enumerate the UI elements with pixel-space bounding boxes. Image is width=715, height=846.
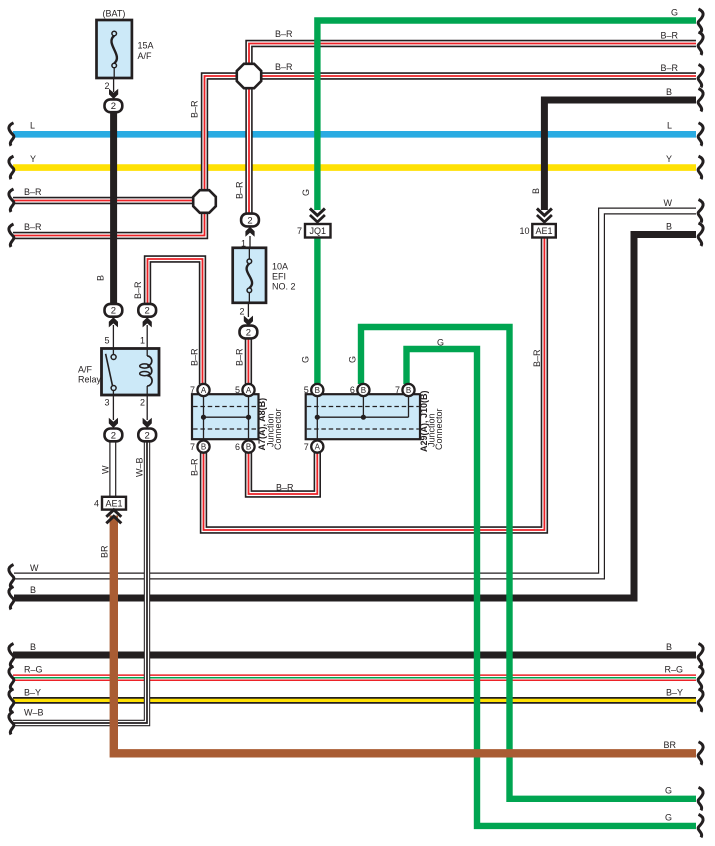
svg-text:5: 5 [104, 336, 109, 346]
svg-text:G: G [348, 356, 358, 363]
svg-text:B: B [361, 386, 366, 395]
svg-text:B–R: B–R [190, 100, 200, 118]
svg-text:AE1: AE1 [536, 226, 553, 236]
svg-text:7: 7 [190, 442, 195, 452]
svg-text:B: B [666, 642, 672, 652]
svg-text:1: 1 [140, 336, 145, 346]
svg-text:10: 10 [519, 226, 529, 236]
svg-text:B: B [406, 386, 411, 395]
svg-text:2: 2 [111, 306, 116, 317]
svg-text:B–R: B–R [275, 62, 293, 72]
svg-text:G: G [301, 356, 311, 363]
svg-text:W–B: W–B [135, 457, 145, 477]
svg-text:JQ1: JQ1 [309, 226, 326, 236]
svg-text:B–R: B–R [275, 29, 293, 39]
svg-text:A: A [201, 386, 207, 395]
svg-text:Y: Y [30, 154, 36, 164]
svg-text:2: 2 [246, 327, 251, 338]
svg-text:Connector: Connector [434, 408, 444, 450]
svg-text:15A: 15A [138, 41, 154, 51]
svg-text:B: B [315, 386, 320, 395]
svg-text:B: B [531, 188, 541, 194]
svg-text:G: G [301, 189, 311, 196]
svg-text:B: B [30, 585, 36, 595]
svg-text:A/F: A/F [78, 365, 93, 375]
svg-text:Connector: Connector [273, 408, 283, 450]
svg-text:B–R: B–R [190, 458, 200, 476]
svg-text:B: B [666, 222, 672, 232]
svg-text:2: 2 [247, 215, 252, 226]
svg-text:R–G: R–G [664, 665, 683, 675]
svg-text:BR: BR [663, 740, 676, 750]
svg-text:B–R: B–R [532, 349, 542, 367]
svg-text:2: 2 [145, 306, 150, 317]
svg-text:7: 7 [190, 385, 195, 395]
svg-text:B: B [201, 443, 206, 452]
svg-text:B–Y: B–Y [666, 687, 683, 697]
svg-text:1: 1 [241, 239, 246, 249]
svg-text:G: G [665, 786, 672, 796]
svg-text:B: B [96, 275, 106, 281]
svg-text:W: W [30, 563, 39, 573]
svg-text:G: G [665, 813, 672, 823]
svg-text:L: L [30, 121, 35, 131]
svg-text:W–B: W–B [24, 708, 44, 718]
svg-text:2: 2 [111, 101, 116, 112]
svg-text:A/F: A/F [138, 51, 153, 61]
svg-text:B–R: B–R [133, 281, 143, 299]
svg-text:7: 7 [297, 226, 302, 236]
svg-text:2: 2 [104, 81, 109, 91]
svg-text:AE1: AE1 [105, 498, 122, 508]
svg-text:NO. 2: NO. 2 [272, 282, 296, 292]
svg-text:5: 5 [235, 385, 240, 395]
svg-text:Relay: Relay [78, 375, 102, 385]
svg-text:W: W [101, 465, 111, 474]
svg-text:B–R: B–R [24, 222, 42, 232]
svg-text:B: B [246, 443, 251, 452]
svg-text:2: 2 [140, 398, 145, 408]
svg-text:W: W [664, 198, 673, 208]
svg-text:A: A [315, 443, 321, 452]
svg-text:7: 7 [304, 442, 309, 452]
svg-text:G: G [671, 8, 678, 18]
svg-text:7: 7 [395, 385, 400, 395]
svg-text:BR: BR [100, 545, 110, 558]
svg-text:A: A [246, 386, 252, 395]
svg-text:B–R: B–R [190, 348, 200, 366]
svg-text:2: 2 [145, 430, 150, 441]
svg-text:B–R: B–R [276, 483, 294, 493]
svg-text:10A: 10A [272, 262, 288, 272]
svg-text:2: 2 [239, 307, 244, 317]
svg-text:L: L [667, 121, 672, 131]
svg-text:6: 6 [350, 385, 355, 395]
svg-text:4: 4 [94, 498, 99, 508]
svg-text:Y: Y [666, 154, 672, 164]
svg-text:B: B [666, 87, 672, 97]
svg-text:B–R: B–R [235, 181, 245, 199]
svg-text:B–R: B–R [660, 63, 678, 73]
svg-text:2: 2 [111, 430, 116, 441]
svg-text:B–R: B–R [235, 348, 245, 366]
svg-text:3: 3 [104, 398, 109, 408]
svg-text:G: G [437, 338, 444, 348]
svg-text:5: 5 [304, 385, 309, 395]
svg-text:B: B [30, 642, 36, 652]
svg-text:B–Y: B–Y [24, 687, 41, 697]
svg-text:B–R: B–R [660, 31, 678, 41]
svg-text:B–R: B–R [24, 187, 42, 197]
svg-text:(BAT): (BAT) [103, 9, 126, 19]
svg-text:EFI: EFI [272, 272, 286, 282]
svg-text:6: 6 [235, 442, 240, 452]
svg-text:R–G: R–G [24, 665, 43, 675]
